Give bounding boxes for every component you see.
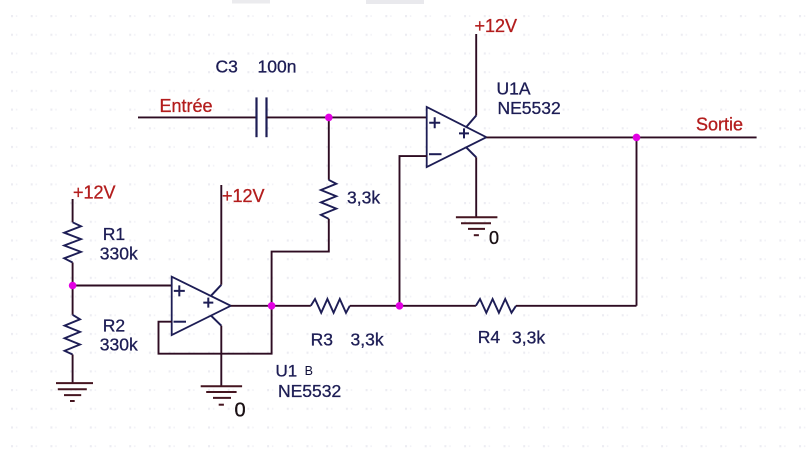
wire U1A output to Sortie bbox=[486, 136, 756, 138]
svg-text:3,3k: 3,3k bbox=[347, 187, 380, 207]
ground R2 bbox=[56, 383, 93, 401]
svg-text:B: B bbox=[305, 364, 313, 378]
svg-text:Entrée: Entrée bbox=[160, 96, 213, 116]
svg-text:330k: 330k bbox=[100, 335, 138, 355]
svg-text:NE5532: NE5532 bbox=[278, 381, 341, 401]
svg-text:C3: C3 bbox=[216, 57, 238, 77]
resistor R2 330k bbox=[65, 315, 80, 355]
wire U1B feedback bbox=[159, 306, 272, 354]
svg-text:R1: R1 bbox=[103, 224, 125, 244]
svg-text:3,3k: 3,3k bbox=[512, 328, 545, 348]
svg-text:+12V: +12V bbox=[475, 16, 518, 36]
wire R2 to ground bbox=[72, 355, 74, 384]
resistor R1 330k bbox=[64, 222, 81, 262]
svg-text:+12V: +12V bbox=[222, 186, 265, 206]
wire node C up to U1A -in bbox=[400, 156, 427, 306]
op-amp U1A bbox=[427, 107, 487, 167]
resistor 3,3k (vertical, top filter) bbox=[321, 180, 336, 219]
capacitor C3 bbox=[257, 97, 267, 137]
svg-text:+12V: +12V bbox=[73, 183, 116, 203]
svg-text:U1A: U1A bbox=[497, 79, 531, 99]
ground U1B bbox=[201, 386, 242, 405]
wire node A down to 3,3k resistor bbox=[328, 117, 330, 179]
node E junction bbox=[69, 282, 77, 290]
svg-text:R2: R2 bbox=[103, 315, 125, 335]
svg-text:330k: 330k bbox=[100, 244, 138, 264]
svg-text:U1: U1 bbox=[276, 362, 298, 381]
node A junction bbox=[325, 114, 333, 122]
wire R4 right to node D bbox=[516, 305, 637, 307]
resistor R3 3,3k bbox=[311, 299, 350, 313]
node C junction bbox=[396, 302, 404, 310]
resistor R4 3,3k bbox=[476, 299, 516, 313]
wire input Entrée to C3 bbox=[138, 116, 257, 118]
wire node E to U1B +in bbox=[73, 285, 172, 287]
svg-text:0: 0 bbox=[235, 400, 246, 422]
node B junction bbox=[268, 302, 276, 310]
wire +12V to U1A V+ bbox=[475, 34, 477, 116]
wire +12V to R1 bbox=[72, 199, 74, 222]
svg-text:Sortie: Sortie bbox=[696, 115, 743, 135]
ground U1A bbox=[456, 217, 498, 235]
svg-text:R4: R4 bbox=[478, 327, 501, 347]
op-amp U1B bbox=[172, 277, 231, 335]
wire R1 to node E to R2 bbox=[72, 263, 74, 315]
wire R3 to node C to R4 bbox=[350, 305, 476, 307]
svg-text:R3: R3 bbox=[311, 329, 333, 349]
wire U1A V- to ground bbox=[475, 157, 477, 217]
node D junction bbox=[633, 134, 641, 142]
wire U1B V- to ground bbox=[220, 326, 222, 386]
wire node D down to R4 bbox=[636, 137, 638, 305]
svg-text:100n: 100n bbox=[258, 57, 297, 77]
svg-text:3,3k: 3,3k bbox=[351, 329, 384, 349]
svg-text:0: 0 bbox=[489, 228, 499, 248]
wire C3 to node A and U1A +in bbox=[267, 116, 427, 118]
wire 3,3k bottom to node B bbox=[272, 219, 329, 306]
wire U1B output to node B bbox=[231, 305, 311, 307]
svg-text:NE5532: NE5532 bbox=[498, 98, 561, 118]
wire +12V to U1B V+ bbox=[220, 185, 222, 285]
